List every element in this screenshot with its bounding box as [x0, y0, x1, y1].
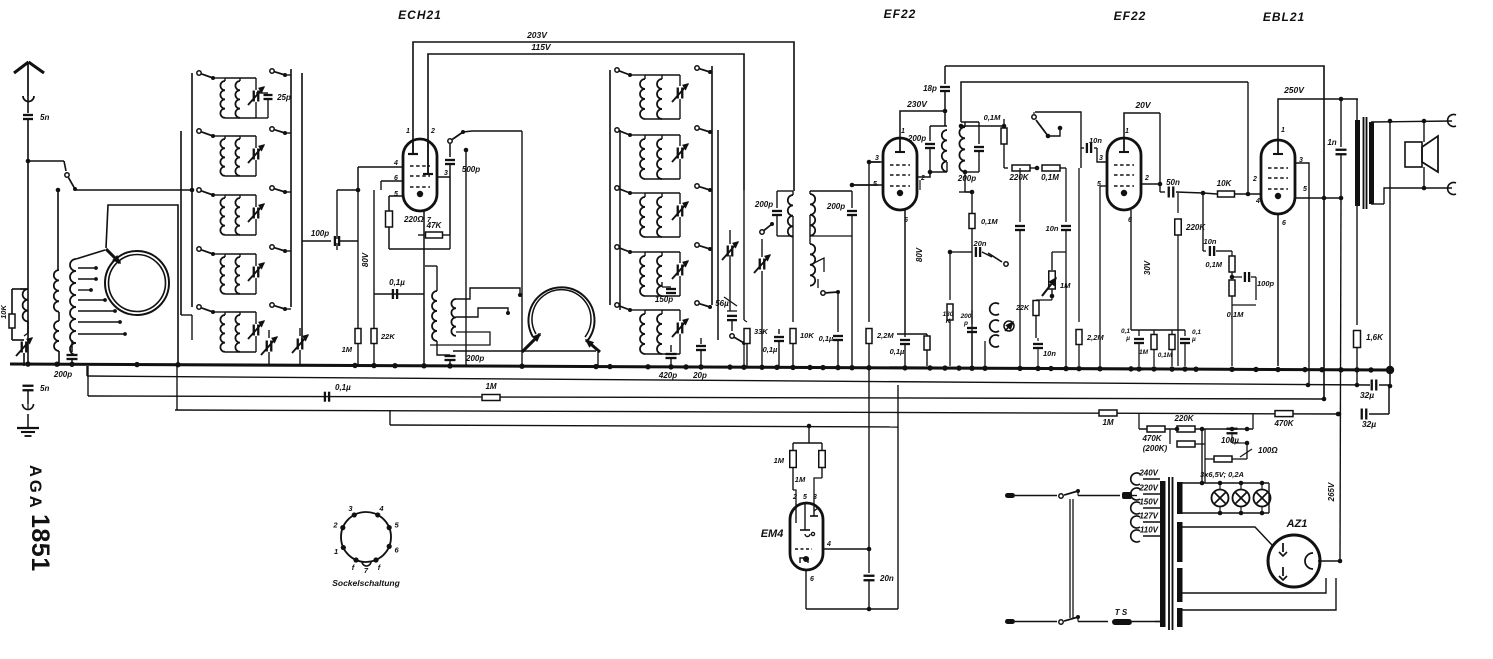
svg-text:p: p	[963, 320, 968, 327]
bank2 switch row 1 left	[615, 68, 619, 72]
bank2 coil row 3 b	[661, 193, 663, 197]
capacitor 0,1u cathode EF22a	[904, 334, 906, 337]
svg-text:1M: 1M	[774, 456, 785, 465]
svg-text:20n: 20n	[879, 574, 894, 583]
wire primary top	[1356, 99, 1358, 120]
bank2 trimmer row 5	[679, 310, 681, 321]
svg-text:1: 1	[406, 128, 410, 135]
bank2 switch row 5 left	[615, 303, 619, 307]
primary taps	[1131, 473, 1140, 485]
ECH21 pin5 wire and 220 ohm resistor	[389, 195, 403, 197]
ECH21 pin3 wire	[437, 176, 450, 178]
AZ1 filament upper	[1282, 543, 1284, 552]
capacitor 25p first row	[256, 92, 268, 94]
taps of oscillator coil	[78, 267, 96, 269]
secondary bottom wire	[1182, 578, 1336, 610]
tube AZ1	[1268, 535, 1320, 587]
svg-text:10n: 10n	[1046, 224, 1059, 233]
capacitor 20n EM4	[868, 549, 870, 573]
power transformer secondary winding segments	[1177, 482, 1183, 514]
wire avc vertical	[521, 131, 523, 366]
speaker terminals	[1423, 121, 1425, 142]
resistor 1M cathode	[1153, 330, 1155, 334]
svg-text:µ: µ	[1125, 335, 1130, 342]
oscillator coil b	[451, 299, 456, 336]
detector secondary coil lower	[809, 215, 811, 244]
bias network box	[389, 248, 450, 250]
trimmer antenna	[12, 339, 24, 341]
EF22a pin5 wire	[852, 184, 883, 186]
svg-text:0,1µ: 0,1µ	[763, 345, 778, 354]
svg-text:4: 4	[378, 504, 384, 513]
power transformer core	[1168, 477, 1170, 630]
resistor 220K divider ps	[1177, 426, 1195, 432]
line to screen divider	[961, 82, 1248, 122]
capacitor 5n ground leg	[23, 385, 34, 387]
wire bank2 verticals down	[729, 255, 731, 288]
svg-text:2: 2	[332, 521, 338, 530]
svg-text:5: 5	[394, 191, 398, 198]
supply line 203V	[413, 42, 794, 191]
resistor cathode EF22a	[926, 334, 928, 336]
coil antenna primary	[23, 289, 28, 321]
resistor 47K	[418, 234, 424, 236]
svg-text:32µ: 32µ	[1362, 419, 1376, 429]
svg-text:T S: T S	[1115, 608, 1128, 617]
svg-text:10n: 10n	[1204, 237, 1217, 246]
switch det secondary	[810, 258, 824, 272]
resistor 2,2M agc	[1078, 168, 1080, 322]
row 5 top tie	[225, 311, 256, 313]
AZ1 plate wire bottom	[1182, 578, 1326, 593]
capacitor mid 0,1u	[1019, 168, 1021, 222]
svg-text:22K: 22K	[380, 332, 395, 341]
ground loop symbol	[23, 404, 34, 410]
svg-text:0,1µ: 0,1µ	[890, 347, 905, 356]
svg-text:50n: 50n	[1166, 178, 1180, 187]
resistor 10K grid stopper	[1218, 191, 1235, 197]
EM4 pin4 wire	[823, 548, 869, 550]
bank2 coil row 5 a	[630, 309, 645, 311]
svg-text:EF22: EF22	[884, 7, 917, 21]
dial lamp 1	[1219, 483, 1221, 489]
wire line L2	[88, 396, 1324, 399]
IF2 secondary cap 200p	[978, 122, 980, 144]
svg-text:470K: 470K	[1273, 419, 1294, 428]
coil bank 2 right rail	[711, 66, 713, 305]
oscillator coil wiring steps	[456, 288, 520, 299]
svg-text:0,1M: 0,1M	[981, 217, 998, 226]
detector secondary bottom tie	[810, 235, 852, 237]
svg-text:5n: 5n	[40, 113, 49, 122]
svg-text:100p: 100p	[311, 229, 329, 238]
switch pickup	[988, 253, 1002, 262]
svg-text:100Ω: 100Ω	[1258, 446, 1278, 455]
band switch row 3 left	[197, 188, 201, 192]
capacitor 200p phono	[971, 310, 973, 324]
svg-text:4: 4	[1255, 198, 1260, 205]
band switch row 2 right	[270, 127, 274, 131]
wire switch to coil bank	[75, 189, 192, 191]
capacitor 100u	[1230, 427, 1235, 432]
EBL21 plate supply 250V	[1278, 99, 1358, 140]
svg-text:100p: 100p	[1257, 279, 1275, 288]
antenna	[14, 62, 29, 73]
coil row 1 b	[239, 78, 241, 81]
capacitor 100p tone	[1232, 276, 1242, 278]
svg-text:1M: 1M	[795, 475, 806, 484]
svg-text:0,1M: 0,1M	[1227, 310, 1244, 319]
svg-text:220K: 220K	[1008, 173, 1029, 182]
bank2 switch row 3 right	[695, 184, 699, 188]
capacitor 50n	[1159, 184, 1161, 192]
bank2 coil row 2 a	[630, 134, 645, 136]
oscillator coil a	[432, 291, 437, 341]
svg-text:20V: 20V	[1134, 100, 1151, 110]
resistor 0,1M cathode	[1171, 330, 1173, 334]
node bank1 row3 feed	[190, 188, 195, 193]
switch divider	[1032, 115, 1036, 119]
dial lamp 2	[1240, 483, 1242, 489]
coil row 3 b	[239, 195, 241, 198]
bank2 switch row 1 right	[695, 66, 699, 70]
trimmer bottom right of bank 1	[299, 328, 301, 336]
svg-text:1: 1	[334, 547, 338, 556]
resistor 100 ohm	[1204, 444, 1206, 459]
band rotor circle	[528, 287, 594, 340]
svg-text:3: 3	[444, 170, 448, 177]
wire secondary bottom	[1371, 203, 1384, 205]
cathode rail	[897, 333, 927, 335]
coil oscillator tapped	[70, 259, 76, 355]
band switch row 3 right	[270, 186, 274, 190]
capacitor 10n agc	[1065, 168, 1067, 222]
capacitor 20n coupling	[960, 251, 972, 253]
AZ1 filament lower	[1282, 567, 1284, 576]
svg-text:AGA: AGA	[26, 465, 44, 511]
resistor 10K det	[792, 236, 794, 322]
wire 200p branch to bus	[851, 236, 853, 366]
bank2 row 2 ties	[645, 134, 680, 136]
EF22b cathode network	[1130, 210, 1132, 330]
row 4 bottom tie	[225, 293, 256, 295]
resistor 0,1M divider	[1042, 165, 1060, 171]
tube EM4	[790, 503, 823, 570]
switch mechanical link	[1069, 499, 1071, 618]
svg-text:22K: 22K	[1015, 305, 1030, 312]
svg-text:240V: 240V	[1138, 469, 1158, 478]
screen resistor 0,1M	[971, 192, 973, 213]
svg-text:2: 2	[792, 494, 797, 501]
svg-text:220Ω: 220Ω	[403, 215, 424, 224]
svg-text:3x6,5V; 0,2A: 3x6,5V; 0,2A	[1200, 470, 1244, 479]
dots on L1	[1306, 383, 1311, 388]
resistor 22K	[373, 190, 375, 328]
detector primary cap 200p	[776, 191, 778, 208]
bank2 coil row 3 a	[630, 192, 645, 194]
capacitor 0,1u cathode	[374, 293, 424, 295]
wire det to EF22 grid	[852, 184, 878, 186]
trimmer 56u	[729, 288, 731, 311]
capacitor 200p oscillator padding	[71, 340, 73, 352]
svg-text:1: 1	[1125, 128, 1129, 135]
resistor 33K	[743, 190, 745, 320]
EF22b pin2 wire	[1141, 183, 1160, 185]
coil row 2 b	[239, 136, 241, 139]
lamp rail top	[1182, 482, 1269, 484]
capacitor 150p	[661, 282, 663, 287]
svg-text:µ: µ	[1191, 336, 1196, 343]
tube EF22 second	[1107, 138, 1141, 210]
capacitor 18p	[944, 66, 946, 84]
row 2 top tie	[225, 135, 256, 137]
svg-text:220K: 220K	[1173, 414, 1194, 423]
EF22b pin5 wire	[1100, 185, 1107, 187]
wire osc step bottom	[430, 332, 490, 345]
trimmer row 2	[255, 136, 257, 148]
svg-text:10n: 10n	[1043, 349, 1056, 358]
svg-text:18p: 18p	[923, 84, 937, 93]
tuning dial drum circle	[105, 251, 169, 315]
resistor 0,1M tone lower	[1229, 280, 1235, 296]
capacitor 10n screen	[1080, 147, 1082, 149]
resistor 1M EM4 left	[790, 451, 797, 468]
tube EBL21	[1261, 140, 1295, 214]
wire 10n to EF22b grid	[1097, 148, 1106, 162]
svg-text:220V: 220V	[1138, 484, 1158, 493]
svg-text:10K: 10K	[1217, 179, 1233, 188]
trimmer row 5	[255, 312, 257, 324]
tube EF22 first	[883, 138, 917, 210]
svg-text:3: 3	[1099, 155, 1103, 162]
svg-text:1: 1	[901, 128, 905, 135]
capacitor 100p coupling to ECH21	[302, 240, 331, 242]
svg-text:32µ: 32µ	[1360, 390, 1374, 400]
output transformer secondary winding	[1369, 122, 1374, 204]
IF2 primary cap 200p	[929, 126, 931, 141]
capacitor 5n antenna	[27, 96, 29, 113]
capacitor 32u upper	[1371, 380, 1373, 391]
AZ1 output wire	[1318, 560, 1340, 562]
band switch row 1 left	[197, 71, 201, 75]
speaker	[1405, 142, 1422, 167]
wire AVC line L1	[87, 376, 1370, 385]
svg-text:150V: 150V	[1139, 498, 1158, 507]
svg-text:200p: 200p	[754, 200, 773, 209]
svg-text:2: 2	[1252, 176, 1257, 183]
wire B+ 265V down to rectifier	[1340, 198, 1341, 561]
bank2 row 5 ties	[645, 309, 680, 311]
svg-text:1M: 1M	[1060, 281, 1071, 290]
phono jacks	[990, 303, 999, 315]
wire osc to rotor return	[453, 350, 596, 352]
ECH21 pin7 cathode wire	[423, 211, 425, 366]
svg-text:Sockelschaltung: Sockelschaltung	[332, 578, 400, 588]
divider feed	[961, 125, 1004, 127]
mains terminal top	[1005, 493, 1015, 498]
bank2 row 3 ties	[645, 192, 680, 194]
tube socket circle Sockelschaltung	[341, 512, 391, 562]
screen divider top resistor 0,1M	[1003, 119, 1005, 126]
ground	[17, 427, 39, 429]
switch divider hook	[1048, 128, 1060, 136]
wire secondary top to speaker	[1371, 121, 1452, 122]
svg-text:20n: 20n	[973, 239, 987, 248]
svg-text:200p: 200p	[826, 202, 845, 211]
node antenna junction	[28, 160, 64, 162]
resistor 2,2M det	[868, 190, 870, 322]
svg-text:EF22: EF22	[1114, 9, 1147, 23]
bank2 coil row 1 a	[630, 74, 645, 76]
socket filament pins	[353, 557, 358, 562]
EF22a grid wire pin3	[869, 161, 883, 163]
EM4 pin6 wire	[805, 570, 807, 609]
svg-text:0,1: 0,1	[1192, 329, 1201, 336]
svg-text:EM4: EM4	[761, 528, 784, 540]
wire plate to primary	[917, 172, 930, 177]
coil row 2 a	[213, 135, 225, 137]
row 3 top tie	[225, 194, 256, 196]
bank2 trimmer row 3	[679, 193, 681, 204]
svg-text:2: 2	[1144, 175, 1149, 182]
bank2 coil row 2 b	[661, 135, 663, 139]
svg-text:0,1M: 0,1M	[1158, 352, 1173, 359]
resistor 22K	[1033, 301, 1039, 316]
potentiometer 1M	[1051, 252, 1053, 270]
svg-text:1M: 1M	[342, 345, 353, 354]
wire EM4 feed from L4	[807, 424, 812, 429]
svg-text:5: 5	[1303, 186, 1307, 193]
svg-text:0,1M: 0,1M	[1205, 260, 1222, 269]
primary tap wire to plug	[1132, 495, 1137, 497]
ECH21 pin6 stub	[381, 180, 403, 182]
row 1 bottom tie	[225, 117, 256, 119]
svg-text:265V: 265V	[1327, 482, 1336, 502]
wire line L3	[175, 410, 1338, 414]
svg-text:1851: 1851	[26, 514, 54, 572]
IF transformer 2 primary	[944, 111, 946, 126]
svg-text:127V: 127V	[1139, 512, 1158, 521]
switch band antenna	[64, 161, 66, 171]
wire vertical x898	[897, 385, 899, 609]
resistor 220K grid leak	[1177, 193, 1179, 213]
switch osc	[448, 139, 452, 143]
resistor 1M EM4 right	[819, 451, 826, 468]
coil row 1 a	[213, 77, 225, 79]
bank2 switch row 3 left	[615, 186, 619, 190]
AZ1 plate wire left	[1182, 527, 1272, 545]
coil bank 2 left rail	[609, 70, 611, 305]
svg-text:6: 6	[810, 576, 814, 583]
detector secondary cap 200p	[810, 190, 852, 192]
capacitor 0,1u to bus	[833, 335, 843, 337]
capacitor 0,1u det	[778, 329, 780, 334]
divider frame	[1035, 112, 1081, 168]
tone network from grid line	[1202, 193, 1204, 251]
trimmer row 3	[255, 195, 257, 207]
svg-text:10K: 10K	[800, 331, 814, 340]
svg-text:80V: 80V	[361, 252, 370, 267]
svg-text:0,1: 0,1	[1121, 328, 1130, 335]
trimmer bottom left of bank 1	[268, 330, 270, 338]
row 3 bottom tie	[225, 234, 256, 236]
capacitor 0,1u on L2	[324, 392, 326, 402]
bank2 switch row 5 right	[695, 301, 699, 305]
svg-text:3: 3	[875, 155, 879, 162]
bus end dot	[1386, 366, 1394, 374]
output transformer core	[1363, 117, 1365, 209]
svg-text:25p: 25p	[276, 93, 291, 102]
svg-text:EBL21: EBL21	[1263, 10, 1305, 24]
coil bank 1 left rail	[191, 73, 193, 307]
coil bank 1 right rails	[290, 69, 292, 307]
row 1 top tie	[225, 77, 256, 79]
fuse TS	[1112, 619, 1132, 625]
svg-text:2,2M: 2,2M	[1086, 333, 1104, 342]
svg-text:5: 5	[803, 494, 807, 501]
svg-text:6: 6	[1282, 220, 1286, 227]
EM4 feed split	[793, 442, 822, 444]
svg-text:1M: 1M	[485, 382, 496, 391]
switch mid	[760, 230, 764, 234]
trimmer mid b	[761, 239, 763, 257]
wire primary bottom	[1356, 206, 1358, 325]
coil row 3 a	[213, 194, 225, 196]
svg-text:0,1M: 0,1M	[984, 113, 1001, 122]
wire divider to 100ohm	[1252, 414, 1254, 429]
svg-text:4: 4	[393, 160, 398, 167]
wire top node	[20, 288, 28, 290]
svg-text:4: 4	[826, 541, 831, 548]
lamp feed vertical	[1201, 429, 1203, 483]
wire secondary return	[1389, 121, 1391, 370]
svg-text:80V: 80V	[915, 247, 924, 262]
svg-text:250V: 250V	[1283, 85, 1305, 95]
svg-text:20p: 20p	[692, 371, 707, 380]
ECH21 pin 4 grid wire	[358, 166, 403, 168]
wire antenna down to bus	[26, 159, 31, 164]
svg-text:470K: 470K	[1141, 434, 1162, 443]
svg-text:150p: 150p	[655, 295, 673, 304]
svg-text:2,2M: 2,2M	[876, 331, 894, 340]
mains plug 220V	[1122, 492, 1132, 499]
bank2 row 1 ties	[645, 74, 680, 76]
svg-text:110V: 110V	[1140, 526, 1159, 535]
IF2 secondary	[959, 127, 965, 172]
band switch row 4 left	[197, 247, 201, 251]
trimmer row 4	[255, 254, 257, 266]
coil secondary upper	[54, 270, 59, 312]
capacitor 1n	[1340, 99, 1342, 147]
svg-text:230V: 230V	[906, 99, 928, 109]
socket pin 7 notch	[362, 562, 371, 567]
resistor 0,1M tone upper	[1231, 251, 1233, 256]
dial wiper frame	[106, 205, 178, 366]
capacitor 20p	[700, 338, 702, 344]
tube ECH21	[403, 139, 437, 211]
dial pointer arrow	[106, 249, 120, 263]
bank2 switch row 2 right	[695, 126, 699, 130]
svg-text:0,1µ: 0,1µ	[335, 383, 351, 392]
capacitor 200p osc	[445, 355, 456, 357]
svg-text:115V: 115V	[531, 42, 552, 52]
bank2 trimmer row 2	[679, 135, 681, 146]
capacitor 0,1u a	[1138, 330, 1140, 336]
svg-text:200: 200	[960, 313, 972, 320]
svg-text:10K: 10K	[0, 305, 8, 319]
capacitor 10n tone	[1203, 250, 1206, 252]
capacitor 32u lower	[1361, 409, 1363, 420]
